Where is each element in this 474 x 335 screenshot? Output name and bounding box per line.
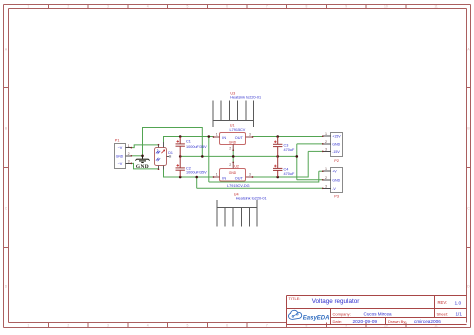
svg-text:6: 6 — [226, 323, 228, 327]
svg-text:2: 2 — [325, 176, 327, 180]
svg-text:7: 7 — [266, 323, 268, 327]
svg-text:C4: C4 — [284, 168, 289, 172]
svg-text:GND: GND — [229, 141, 237, 145]
svg-text:Cucos Mircea: Cucos Mircea — [364, 312, 393, 317]
svg-text:1: 1 — [27, 323, 29, 327]
svg-text:Voltage regulator: Voltage regulator — [312, 298, 360, 305]
svg-text:Sheet:: Sheet: — [437, 312, 449, 317]
svg-text:2: 2 — [128, 152, 130, 156]
svg-text:+V: +V — [332, 170, 337, 174]
svg-text:4: 4 — [147, 323, 149, 327]
svg-text:4: 4 — [147, 5, 149, 9]
svg-text:1: 1 — [216, 173, 218, 177]
svg-text:GND: GND — [116, 154, 124, 158]
svg-text:IN: IN — [222, 176, 226, 180]
svg-text:7: 7 — [266, 5, 268, 9]
svg-text:C3: C3 — [284, 144, 289, 148]
svg-text:11: 11 — [434, 5, 438, 9]
svg-text:~V: ~V — [118, 162, 123, 166]
svg-text:470uF: 470uF — [284, 172, 295, 176]
svg-text:2020-09-09: 2020-09-09 — [353, 319, 378, 325]
svg-text:3: 3 — [325, 184, 327, 188]
svg-text:Heatsink to220-01: Heatsink to220-01 — [230, 96, 261, 100]
svg-text:P2: P2 — [334, 159, 339, 163]
svg-text:-15V: -15V — [332, 150, 340, 154]
svg-text:Date:: Date: — [333, 319, 343, 324]
svg-text:1/1: 1/1 — [456, 312, 463, 317]
svg-text:2: 2 — [67, 5, 69, 9]
svg-text:U2: U2 — [234, 164, 239, 168]
svg-text:6: 6 — [226, 5, 228, 9]
svg-text:Company:: Company: — [333, 311, 351, 316]
svg-text:1: 1 — [325, 132, 327, 136]
svg-text:IN: IN — [222, 136, 226, 140]
svg-text:EasyEDA: EasyEDA — [303, 315, 330, 321]
svg-text:U1: U1 — [230, 124, 235, 128]
svg-text:GND: GND — [136, 164, 149, 170]
svg-text:2: 2 — [325, 140, 327, 144]
svg-text:GND: GND — [229, 171, 237, 175]
svg-text:5: 5 — [186, 323, 188, 327]
svg-text:P1: P1 — [115, 139, 120, 143]
svg-text:P3: P3 — [334, 194, 339, 198]
svg-text:+15V: +15V — [332, 135, 341, 139]
svg-text:9: 9 — [345, 5, 347, 9]
svg-text:L7915CV-DG: L7915CV-DG — [227, 184, 250, 188]
svg-text:3: 3 — [128, 160, 130, 164]
svg-text:1: 1 — [27, 5, 29, 9]
svg-text:3: 3 — [325, 147, 327, 151]
svg-text:2: 2 — [67, 323, 69, 327]
svg-text:Heatsink to220-01: Heatsink to220-01 — [236, 197, 267, 201]
svg-text:1000uF/35V: 1000uF/35V — [186, 171, 207, 175]
svg-text:REV:: REV: — [438, 300, 448, 305]
svg-text:C1: C1 — [186, 139, 191, 143]
svg-text:2: 2 — [229, 163, 231, 167]
svg-text:3: 3 — [107, 323, 109, 327]
svg-text:3: 3 — [107, 5, 109, 9]
svg-text:GND: GND — [332, 178, 340, 182]
svg-text:-V: -V — [332, 187, 336, 191]
svg-text:D1: D1 — [168, 151, 173, 155]
svg-text:L7915CV: L7915CV — [230, 128, 246, 132]
svg-text:1000uF/35V: 1000uF/35V — [186, 145, 207, 149]
svg-text:GND: GND — [332, 142, 340, 146]
svg-text:3: 3 — [249, 133, 251, 137]
svg-text:470uF: 470uF — [284, 148, 295, 152]
svg-text:1.0: 1.0 — [455, 300, 462, 306]
svg-text:1: 1 — [325, 167, 327, 171]
svg-text:3: 3 — [249, 173, 251, 177]
svg-text:~V: ~V — [118, 146, 123, 150]
svg-text:10: 10 — [384, 5, 388, 9]
svg-text:OUT: OUT — [235, 136, 244, 140]
svg-text:8: 8 — [306, 5, 308, 9]
svg-text:Drawn By:: Drawn By: — [388, 319, 406, 324]
svg-text:1: 1 — [128, 144, 130, 148]
svg-text:2: 2 — [229, 147, 231, 151]
svg-text:OUT: OUT — [235, 176, 244, 180]
svg-text:TITLE:: TITLE: — [289, 296, 301, 301]
svg-text:5: 5 — [186, 5, 188, 9]
svg-text:cmircea2006: cmircea2006 — [414, 319, 441, 324]
svg-text:1: 1 — [216, 133, 218, 137]
